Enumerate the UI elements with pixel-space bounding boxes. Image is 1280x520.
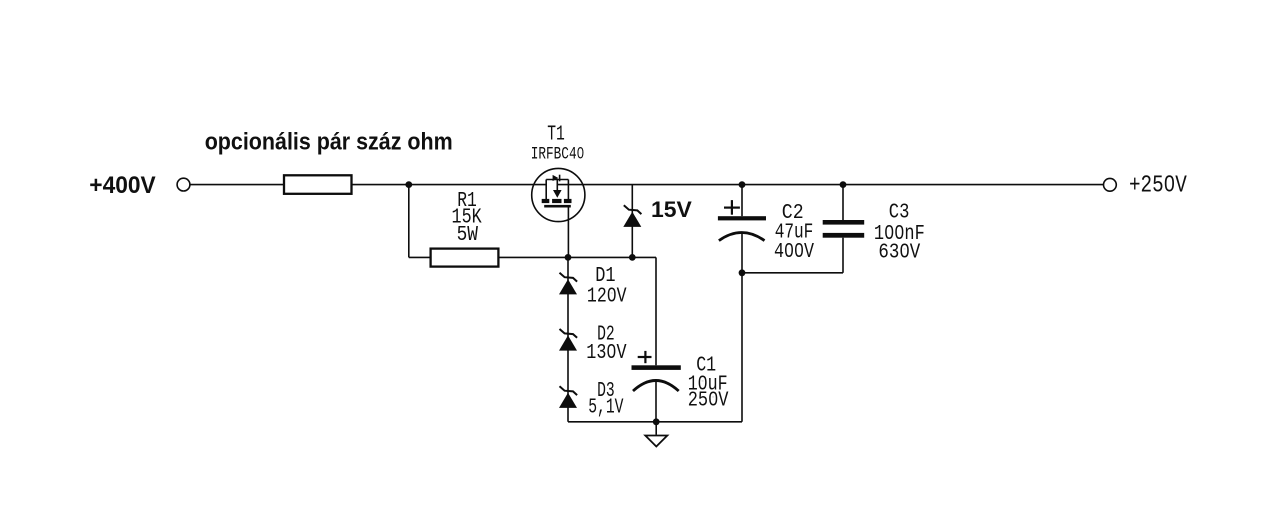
T1 gate plate — [544, 205, 571, 208]
zener D3 — [559, 386, 577, 408]
resistor (optional few hundred ohm) — [284, 175, 352, 194]
zener D1 — [559, 273, 577, 295]
wire: C3 top lead — [842, 185, 844, 220]
white covers hiding Liberation Mono zero dots — [579, 151, 582, 155]
zener 15V — [623, 205, 641, 227]
wire: zener chain vertical D1-D2-D3 — [567, 257, 569, 421]
junction node dots — [405, 181, 846, 425]
wire: to R1 left — [409, 256, 431, 258]
wire: right vertical to C2/C3 bottom node — [741, 273, 743, 422]
svg-text:C3: C3 — [889, 202, 910, 225]
capacitor C2 plates — [718, 216, 766, 220]
transistor T1 body circle — [532, 168, 585, 221]
wire: bottom ground rail — [568, 421, 742, 423]
T1 substrate arrow — [553, 190, 562, 198]
svg-text:opcionális pár száz ohm: opcionális pár száz ohm — [205, 129, 453, 156]
wire: T1 gate lead down — [567, 207, 569, 257]
capacitor C2 plus sign — [724, 200, 740, 215]
svg-text:630V: 630V — [878, 242, 920, 265]
svg-text:130V: 130V — [586, 342, 627, 365]
wire: C2 top lead — [741, 185, 743, 217]
svg-text:T1: T1 — [547, 123, 565, 146]
terminal +400V — [177, 178, 190, 191]
capacitor C1 plus sign — [638, 351, 652, 363]
wire: C2 bottom lead — [741, 233, 743, 273]
wire: top rail from T1 to +250V terminal — [557, 184, 1103, 186]
svg-text:120V: 120V — [587, 286, 627, 309]
ground — [645, 436, 667, 447]
wire: +400V terminal to series resistor — [190, 184, 284, 186]
terminal +250V — [1104, 178, 1117, 191]
wire: C3 bottom lead — [842, 238, 844, 273]
T1 channel contacts — [542, 199, 550, 203]
svg-text:15V: 15V — [651, 197, 692, 222]
T1 internal: drain-source box — [546, 180, 568, 201]
wire: 15V zener vertical — [631, 185, 633, 258]
svg-text:IRFBC40: IRFBC40 — [531, 145, 584, 165]
capacitor C3 plates — [823, 220, 865, 225]
svg-text:+400V: +400V — [89, 172, 155, 199]
zener D2 — [559, 329, 577, 351]
svg-text:5,1V: 5,1V — [588, 396, 624, 419]
svg-text:250V: 250V — [688, 390, 729, 413]
svg-text:+250V: +250V — [1129, 173, 1187, 200]
svg-text:400V: 400V — [774, 241, 814, 264]
resistor R1 — [431, 249, 499, 267]
capacitor C1 plates — [632, 365, 681, 370]
wire: ground stub — [655, 422, 657, 435]
wire: C1 bottom lead — [655, 381, 657, 422]
wire: top rail left of T1 — [352, 184, 547, 186]
T1 body diode — [553, 175, 559, 181]
wire: node A vertical drop to R1 — [408, 185, 410, 258]
svg-text:5W: 5W — [457, 224, 479, 247]
wire: R1 right to C1 branch — [498, 256, 656, 258]
wire: C1 top lead — [655, 257, 657, 365]
wire: C2-C3 bottom link — [742, 272, 843, 274]
